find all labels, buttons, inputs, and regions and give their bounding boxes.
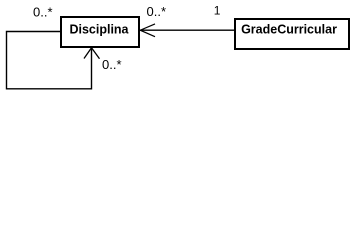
svg-text:1: 1 <box>214 4 221 18</box>
class GradeCurricular <box>235 19 349 49</box>
association arrowhead at Disciplina right edge <box>140 24 155 37</box>
self-association arrowhead into Disciplina bottom <box>84 48 100 59</box>
association wire: GradeCurricular to Disciplina <box>140 29 235 31</box>
self-association wire: left segment from Disciplina left edge <box>7 32 92 89</box>
svg-text:Disciplina: Disciplina <box>69 23 129 37</box>
svg-text:GradeCurricular: GradeCurricular <box>241 23 337 37</box>
svg-text:0..*: 0..* <box>147 4 167 19</box>
svg-text:0..*: 0..* <box>33 4 53 19</box>
class Disciplina <box>61 17 139 47</box>
svg-text:0..*: 0..* <box>102 57 122 72</box>
